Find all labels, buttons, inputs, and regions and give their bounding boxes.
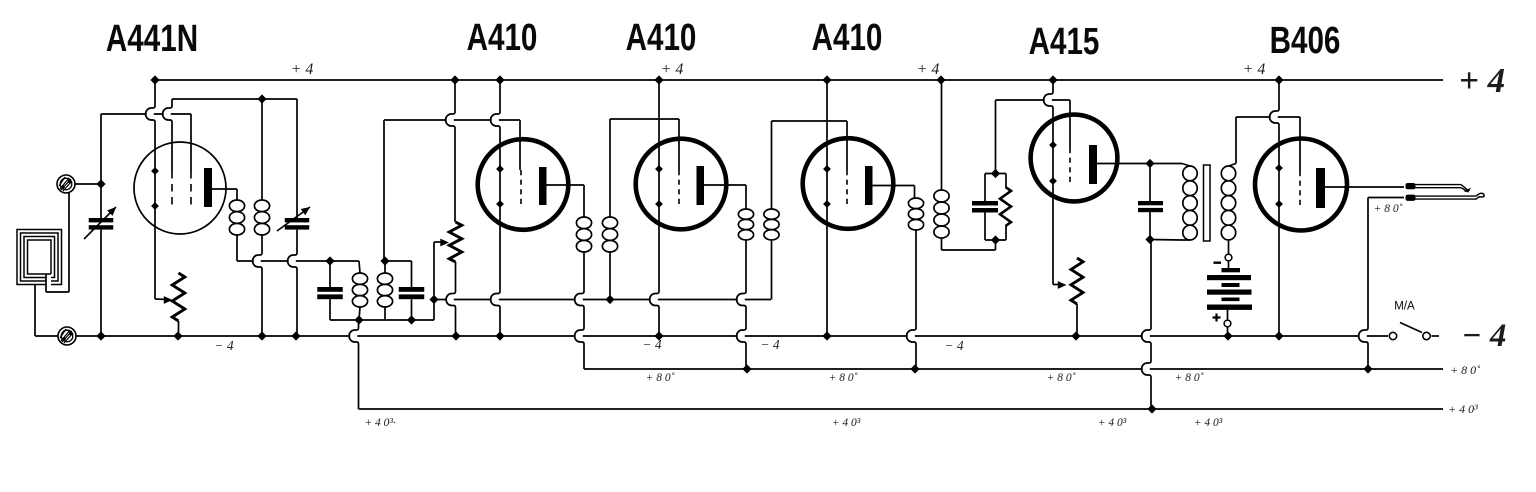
svg-text:+ 4: + 4 xyxy=(291,61,314,78)
svg-text:+ 4 0³: + 4 0³ xyxy=(1448,402,1478,416)
svg-text:+ 4 0³: + 4 0³ xyxy=(1098,417,1127,429)
svg-text:− 4: − 4 xyxy=(642,337,661,352)
svg-text:A410: A410 xyxy=(467,17,538,59)
svg-text:+ 8 0˚: + 8 0˚ xyxy=(1450,363,1480,377)
svg-text:+ 8 0˚: + 8 0˚ xyxy=(1175,372,1204,384)
svg-text:+ 4: + 4 xyxy=(661,61,684,78)
svg-text:A415: A415 xyxy=(1029,21,1100,63)
svg-text:A410: A410 xyxy=(812,17,883,59)
svg-text:M/A: M/A xyxy=(1394,301,1415,313)
svg-text:+ 8 0˚: + 8 0˚ xyxy=(1047,372,1076,384)
svg-text:+ 4 0³: + 4 0³ xyxy=(1194,417,1223,429)
svg-text:+ 4: + 4 xyxy=(1243,61,1266,78)
svg-text:A441N: A441N xyxy=(106,18,198,60)
svg-text:+ 4 0³: + 4 0³ xyxy=(832,417,861,429)
svg-text:− 4: − 4 xyxy=(760,337,779,352)
svg-text:A410: A410 xyxy=(626,17,697,59)
svg-text:+ 4: + 4 xyxy=(917,61,940,78)
svg-text:− 4: − 4 xyxy=(944,338,963,353)
svg-text:− 4: − 4 xyxy=(214,338,233,353)
svg-text:+ 8 0˚: + 8 0˚ xyxy=(1374,203,1403,215)
svg-text:+ 8 0˚: + 8 0˚ xyxy=(646,372,675,384)
svg-text:B406: B406 xyxy=(1270,20,1341,62)
svg-text:− 4: − 4 xyxy=(1462,318,1507,354)
svg-text:+ 8 0˚: + 8 0˚ xyxy=(829,372,858,384)
svg-text:+ 4: + 4 xyxy=(1459,61,1505,100)
svg-text:+ 4 0³·: + 4 0³· xyxy=(364,417,395,429)
